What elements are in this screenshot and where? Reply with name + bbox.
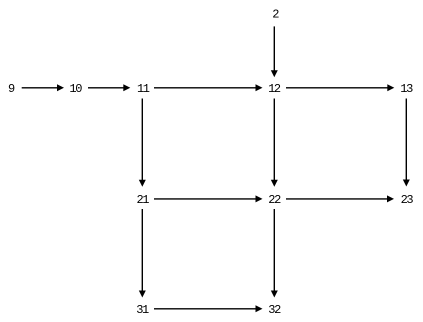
node 12 bbox=[268, 82, 281, 96]
edge 21->22 bbox=[154, 195, 263, 202]
edge 11->21 bbox=[139, 99, 146, 187]
svg-text:21: 21 bbox=[136, 193, 149, 207]
node 13 bbox=[400, 82, 413, 96]
edge 11->12 bbox=[154, 84, 263, 91]
node 10 bbox=[69, 82, 82, 96]
svg-text:32: 32 bbox=[268, 303, 281, 317]
svg-text:11: 11 bbox=[137, 82, 150, 96]
svg-text:23: 23 bbox=[401, 193, 414, 207]
edge 31->32 bbox=[154, 305, 263, 312]
edge 22->23 bbox=[286, 195, 394, 202]
svg-text:22: 22 bbox=[268, 193, 281, 207]
svg-text:12: 12 bbox=[268, 82, 281, 96]
node 11 bbox=[137, 82, 150, 96]
svg-text:31: 31 bbox=[136, 303, 149, 317]
node 31 bbox=[136, 303, 149, 317]
svg-text:13: 13 bbox=[400, 82, 413, 96]
node 32 bbox=[268, 303, 281, 317]
edge 13->23 bbox=[403, 99, 410, 187]
svg-text:10: 10 bbox=[69, 82, 82, 96]
edge 22->32 bbox=[271, 209, 278, 298]
svg-text:9: 9 bbox=[8, 82, 15, 96]
edge 12->22 bbox=[271, 99, 278, 187]
edge 21->31 bbox=[139, 209, 146, 298]
svg-text:2: 2 bbox=[272, 8, 279, 22]
edge 10->11 bbox=[88, 84, 130, 91]
node 21 bbox=[136, 193, 149, 207]
node 23 bbox=[401, 193, 414, 207]
node 2 bbox=[272, 8, 279, 22]
node 22 bbox=[268, 193, 281, 207]
edge 2->12 bbox=[271, 26, 278, 77]
edge 9->10 bbox=[22, 84, 64, 91]
edge 12->13 bbox=[286, 84, 394, 91]
node 9 bbox=[8, 82, 15, 96]
